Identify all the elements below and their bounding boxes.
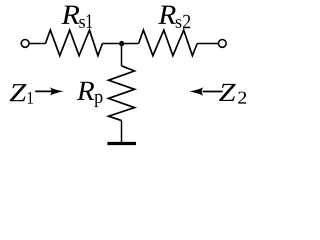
resistor Rs1 xyxy=(45,30,102,56)
label R_p xyxy=(77,82,103,107)
wire node down to Rp xyxy=(121,44,123,66)
wire Rs2 to right terminal xyxy=(197,43,218,45)
node junction dot xyxy=(119,41,124,46)
ground xyxy=(107,142,136,145)
wire Rp to ground xyxy=(121,121,123,143)
wire left terminal to Rs1 xyxy=(29,43,45,45)
resistor Rp xyxy=(109,66,135,121)
wire Rs1 to Rs2 xyxy=(102,43,138,45)
label Z_2 xyxy=(219,84,246,104)
resistor Rs2 xyxy=(139,30,198,56)
terminal circle left xyxy=(21,40,29,48)
label R_s2 xyxy=(158,6,190,29)
arrow Z2 pointing left xyxy=(189,87,222,95)
arrow Z1 pointing right xyxy=(35,87,64,95)
label R_s1 xyxy=(61,6,92,28)
label Z_1 xyxy=(10,84,33,104)
terminal circle right xyxy=(218,40,226,48)
